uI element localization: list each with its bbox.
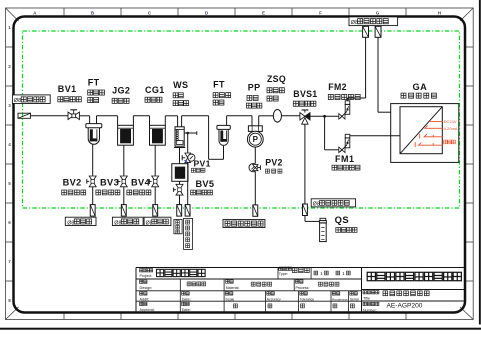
label vertical 排污口	[174, 220, 182, 234]
svg-text:E: E	[262, 10, 265, 15]
svg-text:Ø8: Ø8	[67, 220, 74, 226]
svg-text:Project:: Project:	[140, 274, 153, 278]
wire ZSQ to BVS1	[282, 115, 300, 117]
condenser WS 消洗冷凝器	[174, 127, 185, 148]
wire PV2 down	[254, 172, 256, 205]
svg-text:AE-AGP200: AE-AGP200	[387, 303, 423, 310]
svg-text:FM2: FM2	[328, 82, 347, 92]
svg-text:Design:: Design:	[140, 286, 153, 290]
svg-text:FT: FT	[88, 77, 100, 87]
wire BV1 to FT1	[79, 116, 89, 124]
wire BV5 down	[179, 195, 181, 205]
svg-text:Material:: Material:	[226, 286, 240, 290]
label BV2 两通球阀	[62, 178, 86, 195]
label PP 气动真空泵	[246, 83, 261, 109]
label BV5 两通球阀	[191, 179, 215, 195]
wire BVS1 down (std gas)	[304, 124, 306, 204]
wire BV3 to port	[123, 187, 125, 205]
valve BV4	[149, 176, 158, 187]
label BV1 两通球阀	[58, 84, 81, 102]
page right edge line	[479, 0, 481, 325]
wire FT2 to PP	[227, 116, 252, 126]
svg-text:PP: PP	[248, 83, 261, 93]
label BV4 两通球阀	[127, 178, 151, 195]
drain port fitting 2	[121, 205, 126, 217]
filter FT2 气源处理器	[217, 125, 230, 145]
vessel JG2 碱洗罐	[118, 125, 134, 145]
svg-text:BV3: BV3	[100, 178, 119, 188]
svg-text:Approval:: Approval:	[140, 308, 155, 312]
analyzer GA box	[391, 104, 459, 163]
label CG1 醇洗罐	[145, 85, 165, 102]
enclosure boundary (green dash-dot)	[23, 31, 460, 208]
wire FT1 drain	[92, 144, 94, 176]
wire dryer to BV5	[179, 181, 181, 184]
valve BV5	[174, 184, 183, 195]
label FM1 采样流量计	[332, 154, 360, 170]
drain port fitting 3	[153, 205, 158, 217]
flow meter FM2 valve+rotameter	[339, 101, 350, 119]
label ZSQ 囊式过滤器	[267, 74, 286, 101]
node junction FM split	[323, 115, 326, 118]
wire WS side outlet	[184, 131, 197, 135]
wire CG1 drain	[154, 145, 156, 176]
drain port fitting 1	[90, 205, 95, 217]
title block grid main	[136, 268, 465, 313]
analyzer GA electrical io (red)	[415, 119, 458, 147]
wire PP to PV2	[254, 147, 256, 163]
wire PP out	[259, 116, 274, 126]
svg-text:JG2: JG2	[112, 85, 130, 95]
label BVS1 三通球阀	[293, 89, 317, 106]
wire PV1 down	[187, 162, 189, 205]
svg-text:Tolerance: Tolerance	[300, 298, 314, 302]
svg-text:DC24V: DC24V	[444, 119, 457, 124]
svg-text:6: 6	[8, 220, 11, 225]
corner diagonal top-left	[6, 8, 19, 21]
svg-text:3: 3	[8, 103, 11, 108]
svg-text:Ø8: Ø8	[351, 20, 358, 26]
svg-text:Scale: Scale	[225, 298, 234, 302]
svg-text:BV1: BV1	[58, 84, 77, 94]
svg-text:ZSQ: ZSQ	[267, 74, 286, 84]
label FT2 气源处理器	[213, 79, 231, 105]
svg-text:FT: FT	[213, 79, 225, 89]
label vertical 标气切换口	[184, 218, 193, 249]
svg-text:BVS1: BVS1	[293, 89, 317, 99]
svg-text:1: 1	[8, 25, 11, 30]
air port fitting	[253, 205, 258, 216]
wire BV4 to port	[154, 187, 156, 205]
svg-text:GA: GA	[413, 82, 428, 92]
svg-text:8: 8	[8, 298, 11, 303]
wire WS bottom to dryer	[179, 148, 181, 164]
label Ø8标准气入口	[311, 199, 355, 208]
flow meter FM1 valve+rotameter	[339, 134, 350, 152]
label drain Ø8排污口 1	[65, 217, 96, 226]
svg-text:G: G	[376, 10, 380, 15]
title row4 cells	[140, 302, 355, 312]
label BV3 两通球阀	[96, 178, 120, 195]
svg-text:P: P	[253, 135, 259, 144]
label drain Ø8排污口 3	[144, 217, 171, 226]
label WS 消洗冷凝器	[173, 80, 188, 106]
svg-text:Roughness: Roughness	[332, 298, 348, 302]
svg-text:Addit:: Addit:	[140, 298, 150, 302]
drain port fitting 4 (BV5)	[177, 205, 182, 217]
wire port to QS	[305, 216, 319, 222]
svg-text:4-20mA: 4-20mA	[444, 126, 458, 131]
svg-text:BV5: BV5	[196, 179, 215, 189]
wire CG1 to WS	[165, 116, 177, 127]
title row1 cells	[140, 267, 351, 279]
regulator PV1 调压阀	[182, 153, 195, 163]
wire BV2 to port	[92, 187, 94, 205]
svg-text:Ø8: Ø8	[14, 98, 21, 104]
filter ZSQ 囊式过滤器	[273, 110, 281, 123]
svg-text:Ø8: Ø8	[313, 202, 320, 208]
svg-text:BV4: BV4	[131, 178, 151, 188]
svg-text:2: 2	[8, 64, 11, 69]
label Ø8尾气放空口	[349, 17, 398, 26]
corner diagonal bottom-right	[460, 307, 473, 320]
label sample inlet Ø8采样入口	[12, 95, 50, 104]
label FM2 放空流量计	[328, 82, 360, 100]
wire FT1 to JG2	[97, 116, 118, 126]
svg-text:Ø8: Ø8	[114, 220, 121, 226]
title row2 cells	[140, 279, 339, 291]
label drain Ø8排污口 2	[112, 217, 143, 226]
wire BVS1 to FM2	[310, 115, 339, 117]
valve BV1	[68, 110, 79, 120]
valve BV2	[87, 176, 96, 187]
wire WS top out	[182, 116, 209, 127]
svg-text:CG1: CG1	[145, 85, 165, 95]
node junction WS-PV1	[186, 132, 189, 153]
wire main to FT2	[209, 116, 224, 160]
svg-text:Type:: Type:	[279, 272, 288, 276]
wire JG2 drain	[123, 145, 125, 176]
label 压缩空气入口	[223, 220, 265, 228]
svg-text:Date:: Date:	[182, 298, 191, 302]
valve BVS1 三通球阀	[300, 110, 310, 124]
pump PP 气动真空泵	[247, 126, 263, 147]
svg-text:5: 5	[8, 181, 11, 186]
svg-text:Date:: Date:	[182, 308, 191, 312]
label PV2 调压阀	[265, 157, 283, 173]
regulator PV2 调压阀	[249, 163, 260, 171]
drain port fitting 5 (PV1 line)	[185, 205, 190, 217]
label GA 气体分析仪	[401, 82, 436, 98]
svg-text:Process:: Process:	[296, 286, 310, 290]
svg-text:QS: QS	[335, 214, 350, 225]
vent port fitting 1	[363, 26, 369, 37]
svg-text:FM1: FM1	[335, 154, 355, 164]
wire FM1 to GA	[350, 135, 400, 137]
label PV1 调压阀	[191, 159, 210, 173]
svg-text:7: 7	[8, 259, 11, 264]
title row3 cells	[140, 291, 359, 313]
std gas port fitting	[303, 204, 308, 216]
corner diagonal top-right	[460, 8, 473, 21]
wire inlet to BV1	[31, 115, 69, 117]
svg-text:Accuracy: Accuracy	[267, 298, 281, 302]
wire junction down to FM1	[325, 116, 339, 150]
inlet bulkhead fitting	[18, 113, 31, 118]
cylinder QS 标准气体	[319, 218, 326, 241]
label QS 标准气体	[335, 214, 357, 232]
label FT1 精密过滤器	[88, 77, 105, 102]
vessel CG1 醇洗罐	[150, 125, 166, 145]
filter FT1 精密过滤器	[86, 124, 102, 145]
wire GA vent	[378, 37, 391, 112]
page bottom edge line	[0, 328, 481, 330]
svg-text:WS: WS	[173, 80, 188, 90]
ruler labels	[8, 10, 442, 303]
svg-text:Number:: Number:	[363, 308, 377, 312]
wire JG2 to CG1	[133, 116, 149, 126]
wire FM2 vent	[347, 37, 365, 100]
valve BV3	[118, 176, 127, 187]
label JG2 碱洗罐	[112, 85, 130, 103]
vent port fitting 2	[375, 26, 381, 37]
svg-text:Serial: Serial	[350, 298, 359, 302]
svg-text:BV2: BV2	[63, 178, 82, 188]
svg-text:Title: Title	[363, 297, 370, 301]
svg-text:PV1: PV1	[194, 159, 211, 169]
corner diagonal bottom-left	[6, 307, 19, 320]
svg-text:F: F	[319, 10, 322, 15]
dryer vessel (under WS)	[172, 164, 188, 182]
svg-text:PV2: PV2	[265, 157, 283, 167]
title block right (company)	[362, 272, 466, 312]
svg-text:4: 4	[8, 142, 11, 147]
